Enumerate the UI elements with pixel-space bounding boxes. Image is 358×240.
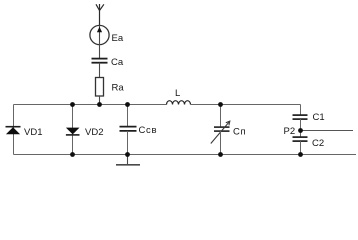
ground: [116, 155, 140, 165]
node VD2 bottom: [70, 152, 75, 157]
wire VD2 column: [72, 105, 74, 155]
inductor L: [167, 101, 191, 105]
wire Csv column top: [127, 105, 129, 127]
wire Ra to bus: [99, 96, 101, 104]
wire Cp column bottom: [220, 131, 222, 154]
wire Cp column top: [220, 105, 222, 128]
node Csv top: [125, 102, 130, 107]
svg-text:Cп: Cп: [233, 127, 246, 138]
source Ea circle: [90, 25, 109, 44]
wire C1 to C2: [300, 119, 302, 137]
svg-text:L: L: [175, 88, 180, 99]
diode VD2: [66, 128, 80, 135]
node ground junction: [125, 152, 130, 157]
svg-text:Ca: Ca: [111, 57, 124, 68]
wire Ca to Ra: [99, 63, 101, 78]
wire Csv column bottom: [127, 131, 129, 155]
wire P2 output: [301, 130, 354, 132]
svg-text:P2: P2: [284, 126, 296, 137]
capacitor Ca: [92, 59, 108, 63]
wire left vertical: [13, 105, 15, 155]
wire top bus left: [14, 104, 167, 106]
capacitor C1: [293, 115, 308, 119]
wire C2 to bus: [300, 141, 302, 154]
antenna WA1: [96, 4, 104, 26]
wire right column top: [300, 105, 302, 116]
capacitor C2: [293, 137, 308, 141]
source arrow: [97, 27, 102, 32]
svg-text:Cсв: Cсв: [139, 125, 158, 136]
wire through source: [99, 26, 101, 59]
node Cp top: [218, 102, 223, 107]
svg-text:C2: C2: [312, 138, 324, 149]
svg-text:VD1: VD1: [24, 127, 42, 138]
svg-text:Ra: Ra: [112, 83, 125, 94]
node Cp bottom: [218, 152, 223, 157]
svg-text:Ea: Ea: [112, 33, 124, 44]
resistor Ra: [96, 78, 104, 97]
svg-text:C1: C1: [313, 112, 325, 123]
node Ra bottom: [97, 102, 102, 107]
node P2: [298, 128, 303, 133]
svg-text:VD2: VD2: [85, 127, 103, 138]
node VD2 top: [70, 102, 75, 107]
capacitor Csv: [120, 127, 137, 131]
wire bottom bus: [14, 154, 357, 156]
node C2 bottom: [298, 152, 303, 157]
diode VD1: [6, 127, 21, 135]
capacitor Cp variable: [211, 121, 230, 143]
wire top bus right: [191, 104, 301, 106]
